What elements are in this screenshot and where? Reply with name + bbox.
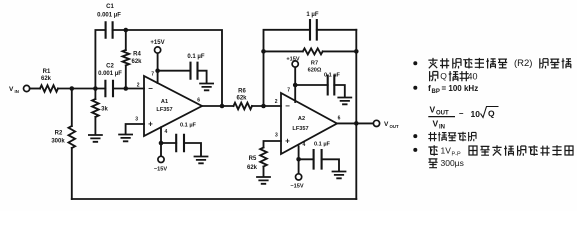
ground (R5) <box>257 177 270 184</box>
svg-text:40: 40 <box>467 71 477 81</box>
capacitor C1 0.001uF <box>97 4 121 38</box>
resistor R5 62k <box>247 148 267 171</box>
svg-text:IN: IN <box>15 89 19 94</box>
wire A2 pin7 to +15V <box>294 67 296 102</box>
svg-text:62k: 62k <box>131 59 142 65</box>
svg-text:BP: BP <box>432 89 440 95</box>
wire A1 pin3 to ground <box>126 124 144 134</box>
node: R1/R2 junction <box>70 86 75 91</box>
svg-text:1 µF: 1 µF <box>306 12 318 18</box>
terminal +15V (A1) <box>150 40 164 53</box>
svg-text:−15V: −15V <box>290 184 303 190</box>
svg-text:R7: R7 <box>311 61 318 67</box>
wire A2 output vertical (feedback + bottom rail) <box>355 30 357 199</box>
formula VOUT/VIN = 10 sqrt(Q) <box>428 105 498 131</box>
svg-text:+: + <box>285 137 290 146</box>
wire to A2 +15V bypass cap <box>295 84 328 86</box>
svg-text:P-P: P-P <box>452 151 462 157</box>
svg-text:R1: R1 <box>43 69 51 75</box>
svg-text:62k: 62k <box>41 76 52 82</box>
svg-text:V: V <box>9 86 14 93</box>
wire C2 to A1 inverting input <box>113 88 144 90</box>
node: A2 positive supply junction <box>293 83 298 88</box>
svg-text:V: V <box>430 105 436 115</box>
wire 3k to ground <box>94 117 96 135</box>
note line 6: wei 300 us <box>428 158 463 168</box>
node: R7 right junction <box>354 49 359 54</box>
note line 3: fBP = 100 kHz <box>428 83 478 95</box>
svg-text:620Ω: 620Ω <box>308 67 322 73</box>
wire R6 to A2 inverting input <box>252 105 281 107</box>
svg-text:0.1 µF: 0.1 µF <box>314 142 331 148</box>
node: A2 pin2 / integrator loop junction <box>261 104 266 109</box>
op-amp A2 LF357 <box>275 88 341 155</box>
svg-text:4: 4 <box>165 129 168 135</box>
svg-text:62k: 62k <box>247 165 258 171</box>
svg-text:R5: R5 <box>249 156 257 162</box>
capacitor 0.1uF (A1 +15V bypass) <box>187 54 204 79</box>
wire bottom feedback rail <box>72 198 357 200</box>
ground (3k resistor) <box>89 135 102 142</box>
resistor R1 62k <box>40 69 58 92</box>
wire R7 rail <box>264 50 357 52</box>
ground (A1 -15V bypass) <box>195 157 208 164</box>
svg-text:10: 10 <box>471 109 481 119</box>
node: A1 output / feedback junction <box>220 104 225 109</box>
output terminal VOUT <box>373 120 399 129</box>
svg-text:3: 3 <box>275 132 278 138</box>
wire bypass cap to ground <box>334 85 345 97</box>
ground (A1 +15V bypass) <box>200 84 213 91</box>
svg-text:= 100 kHz: = 100 kHz <box>442 84 479 93</box>
svg-text:R2: R2 <box>55 131 63 137</box>
wire to A2 -15V bypass cap <box>299 158 314 160</box>
svg-text:6: 6 <box>338 116 341 122</box>
bullet 2 <box>413 86 417 90</box>
node: A1 supply bypass junction <box>155 68 160 73</box>
svg-text:–: – <box>459 109 464 118</box>
svg-text:A1: A1 <box>161 99 168 105</box>
svg-text:−: − <box>285 102 290 111</box>
resistor R4 62k (feedback) <box>123 50 143 65</box>
svg-text:Q: Q <box>440 71 447 81</box>
svg-text:C2: C2 <box>106 64 114 70</box>
svg-text:OUT: OUT <box>436 111 449 117</box>
resistor R2 300k (positive feedback) <box>51 126 75 148</box>
note line 2: shi Q zeng zhi 40 <box>430 71 478 81</box>
node: A2 negative supply junction <box>296 157 301 162</box>
wire C1 to A1 output (top feedback) <box>113 30 222 106</box>
note line 5: dui 1VP-P dan yin mai chong de xiang ying shi jian <box>428 145 573 157</box>
wire A1 pin4 to -15V <box>160 127 162 156</box>
bullet 1 <box>413 61 417 65</box>
note line 4: bu xian yao zheng jie <box>428 132 476 142</box>
svg-text:300µs: 300µs <box>441 158 464 168</box>
svg-text:3: 3 <box>135 117 138 123</box>
terminal -15V (A1) <box>154 156 167 172</box>
wire VIN to R1 <box>30 88 40 90</box>
svg-text:A2: A2 <box>298 116 305 122</box>
svg-text:0.001 µF: 0.001 µF <box>98 71 122 77</box>
svg-text:0.1 µF: 0.1 µF <box>324 73 341 79</box>
wire R1 to node A <box>58 88 105 90</box>
wire 1uF to output vertical <box>317 29 357 31</box>
node: A2 output junction <box>354 121 359 126</box>
svg-text:+: + <box>148 120 153 129</box>
svg-text:−: − <box>148 84 153 93</box>
svg-text:2: 2 <box>137 83 140 89</box>
bullet 3 <box>413 134 417 138</box>
node: C1/R4 top junction <box>124 28 129 33</box>
resistor R7 620ohm <box>303 48 323 73</box>
resistor R6 62k <box>234 89 253 110</box>
svg-text:R4: R4 <box>133 52 141 58</box>
svg-text:(R2): (R2) <box>514 58 532 69</box>
svg-text:IN: IN <box>439 124 445 130</box>
svg-text:0.001 µF: 0.001 µF <box>97 12 121 18</box>
terminal +15V (A2) <box>286 57 299 68</box>
capacitor 0.1uF (A2 -15V bypass) <box>314 142 331 169</box>
capacitor 0.1uF (A1 -15V bypass) <box>176 123 196 152</box>
svg-text:2: 2 <box>275 99 278 105</box>
wire bypass cap to ground <box>322 159 339 171</box>
wire R5 to ground <box>263 167 265 177</box>
svg-text:62k: 62k <box>236 96 247 102</box>
svg-text:+15V: +15V <box>286 57 299 63</box>
wire node to R2 <box>71 89 73 127</box>
svg-text:R6: R6 <box>238 89 246 95</box>
wire to A1 +15V bypass cap <box>158 70 191 72</box>
svg-text:C1: C1 <box>106 4 114 10</box>
wire A2 pin4 to -15V <box>298 146 300 174</box>
node: R4 bottom / pin2 <box>124 86 129 91</box>
node: R7 left junction <box>261 49 266 54</box>
svg-text:OUT: OUT <box>390 124 399 129</box>
svg-text:7: 7 <box>287 88 290 94</box>
note line 1: cai yong fu jia zheng fan kui (R2) de fang fa <box>428 58 571 69</box>
bullet 4 <box>413 148 417 152</box>
svg-text:1V: 1V <box>441 146 452 156</box>
wire node B down to resistor 3k <box>94 89 96 100</box>
svg-text:4: 4 <box>303 142 306 148</box>
svg-text:0.1 µF: 0.1 µF <box>187 54 204 60</box>
svg-text:7: 7 <box>151 72 154 78</box>
ground (A2 -15V bypass) <box>333 172 346 179</box>
terminal -15V (A2) <box>290 174 303 190</box>
svg-text:LF357: LF357 <box>156 107 172 113</box>
capacitor C2 0.001uF (series input) <box>98 64 122 97</box>
wire A2 pin3 to R5 <box>264 141 282 148</box>
wire bypass cap to ground <box>198 71 207 83</box>
capacitor 1uF (A2 integrator) <box>306 12 318 39</box>
svg-text:0.1 µF: 0.1 µF <box>180 123 197 129</box>
op-amp A1 LF357 <box>135 72 202 137</box>
wire bypass cap to ground <box>184 143 201 156</box>
svg-text:Q: Q <box>488 109 495 119</box>
wire node B up to C1 loop <box>95 30 105 89</box>
node: A1 negative supply junction <box>159 141 164 146</box>
wire A1 output <box>202 105 234 107</box>
input terminal VIN <box>9 85 30 93</box>
ground (A2 +15V bypass) <box>338 98 351 105</box>
svg-text:V: V <box>384 121 389 128</box>
capacitor 0.1uF (A2 +15V bypass) <box>324 73 341 95</box>
svg-text:V: V <box>433 119 439 129</box>
svg-text:300k: 300k <box>51 139 65 145</box>
wire A2 output <box>337 122 373 124</box>
wire R4 to top feedback wire <box>125 30 127 50</box>
wire A2 feedback loop (left vertical + top) <box>264 30 311 106</box>
wire to A1 -15V bypass cap <box>161 142 176 144</box>
node B: C1/3k branch junction <box>93 86 98 91</box>
svg-text:3k: 3k <box>101 107 108 113</box>
resistor 3k <box>92 99 108 117</box>
svg-text:+15V: +15V <box>150 40 164 46</box>
svg-text:−15V: −15V <box>154 167 167 173</box>
wire R2 to bottom feedback rail <box>71 148 73 199</box>
wire node to R4 <box>125 65 127 88</box>
wire A1 pin7 to +15V <box>157 53 159 83</box>
ground (A1 pin 3) <box>119 135 132 142</box>
svg-text:LF357: LF357 <box>292 126 308 132</box>
svg-text:6: 6 <box>197 98 200 104</box>
